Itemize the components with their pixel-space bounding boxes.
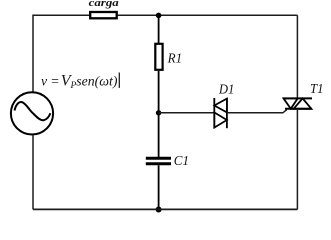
node junction top — [156, 13, 162, 19]
svg-text:v: v — [41, 74, 48, 89]
wire bottom — [33, 208, 297, 210]
wire left vertical lower — [32, 135, 34, 209]
wire middle vertical upper — [158, 15, 160, 43]
svg-text:VPsen(ωt): VPsen(ωt) — [61, 73, 118, 92]
svg-text:D1: D1 — [218, 81, 234, 96]
node junction middle — [156, 110, 161, 115]
wire middle vertical lower — [158, 165, 160, 209]
wire left vertical upper — [32, 15, 34, 93]
node junction bottom — [156, 207, 162, 213]
wire right vertical upper — [296, 15, 298, 98]
svg-text:carga: carga — [89, 0, 120, 9]
triac T1 — [283, 98, 312, 108]
AC source V1 — [11, 92, 53, 134]
text cursor bar — [119, 73, 120, 88]
wire middle node to diac — [159, 112, 214, 114]
svg-text:R1: R1 — [167, 50, 182, 65]
svg-text:C1: C1 — [174, 153, 189, 168]
capacitor C1 — [146, 158, 171, 164]
diac D1 — [214, 98, 227, 128]
svg-text:T1: T1 — [310, 81, 324, 96]
wire diac to triac gate — [227, 110, 287, 113]
svg-text:=: = — [50, 74, 59, 89]
load box (carga) — [90, 12, 117, 18]
wire middle vertical mid — [158, 71, 160, 157]
resistor R1 — [155, 44, 162, 70]
wire right vertical lower — [296, 109, 298, 210]
wire top-left segment — [33, 14, 90, 16]
wire top-right segment — [118, 14, 298, 16]
